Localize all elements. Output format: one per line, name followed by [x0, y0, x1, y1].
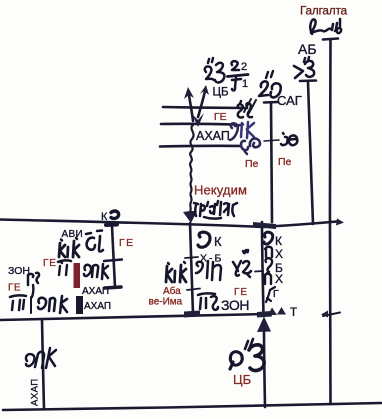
svg-text:ГЕ: ГЕ	[214, 111, 227, 123]
svg-text:К: К	[275, 234, 282, 248]
svg-text:Пе: Пе	[245, 158, 259, 170]
svg-text:ЦБ: ЦБ	[233, 372, 251, 387]
svg-text:ЗОН: ЗОН	[221, 297, 249, 313]
svg-text:Х-Б: Х-Б	[200, 253, 223, 265]
svg-text:К: К	[214, 234, 222, 249]
svg-text:Некудим: Некудим	[194, 183, 247, 198]
svg-text:ГЕ: ГЕ	[8, 283, 21, 294]
svg-text:АБ: АБ	[298, 41, 317, 57]
svg-text:2: 2	[241, 61, 247, 73]
svg-text:ве-Има: ве-Има	[149, 297, 183, 308]
svg-text:АХАП: АХАП	[196, 129, 230, 143]
svg-text:ЦБ: ЦБ	[213, 87, 229, 99]
svg-text:Х: Х	[275, 272, 283, 286]
svg-text:Пе: Пе	[278, 156, 292, 168]
svg-text:ГЕ: ГЕ	[234, 287, 248, 298]
svg-text:ЗОН: ЗОН	[8, 265, 30, 277]
svg-text:САГ: САГ	[277, 93, 302, 108]
svg-text:1: 1	[242, 78, 248, 90]
svg-text:АХАП: АХАП	[84, 301, 111, 312]
svg-text:К: К	[101, 211, 108, 223]
svg-text:ГЕ: ГЕ	[119, 237, 135, 249]
svg-text:АХАП: АХАП	[30, 378, 41, 406]
svg-text:АХАП: АХАП	[82, 286, 109, 297]
svg-text:Х: Х	[275, 247, 283, 261]
svg-text:ГЕ: ГЕ	[43, 258, 57, 269]
svg-text:АВИ: АВИ	[62, 229, 83, 240]
svg-text:Т: Т	[290, 307, 297, 319]
svg-text:Галгалта: Галгалта	[300, 4, 348, 18]
svg-text:Аба: Аба	[163, 285, 181, 297]
svg-text:Г: Г	[273, 288, 279, 300]
